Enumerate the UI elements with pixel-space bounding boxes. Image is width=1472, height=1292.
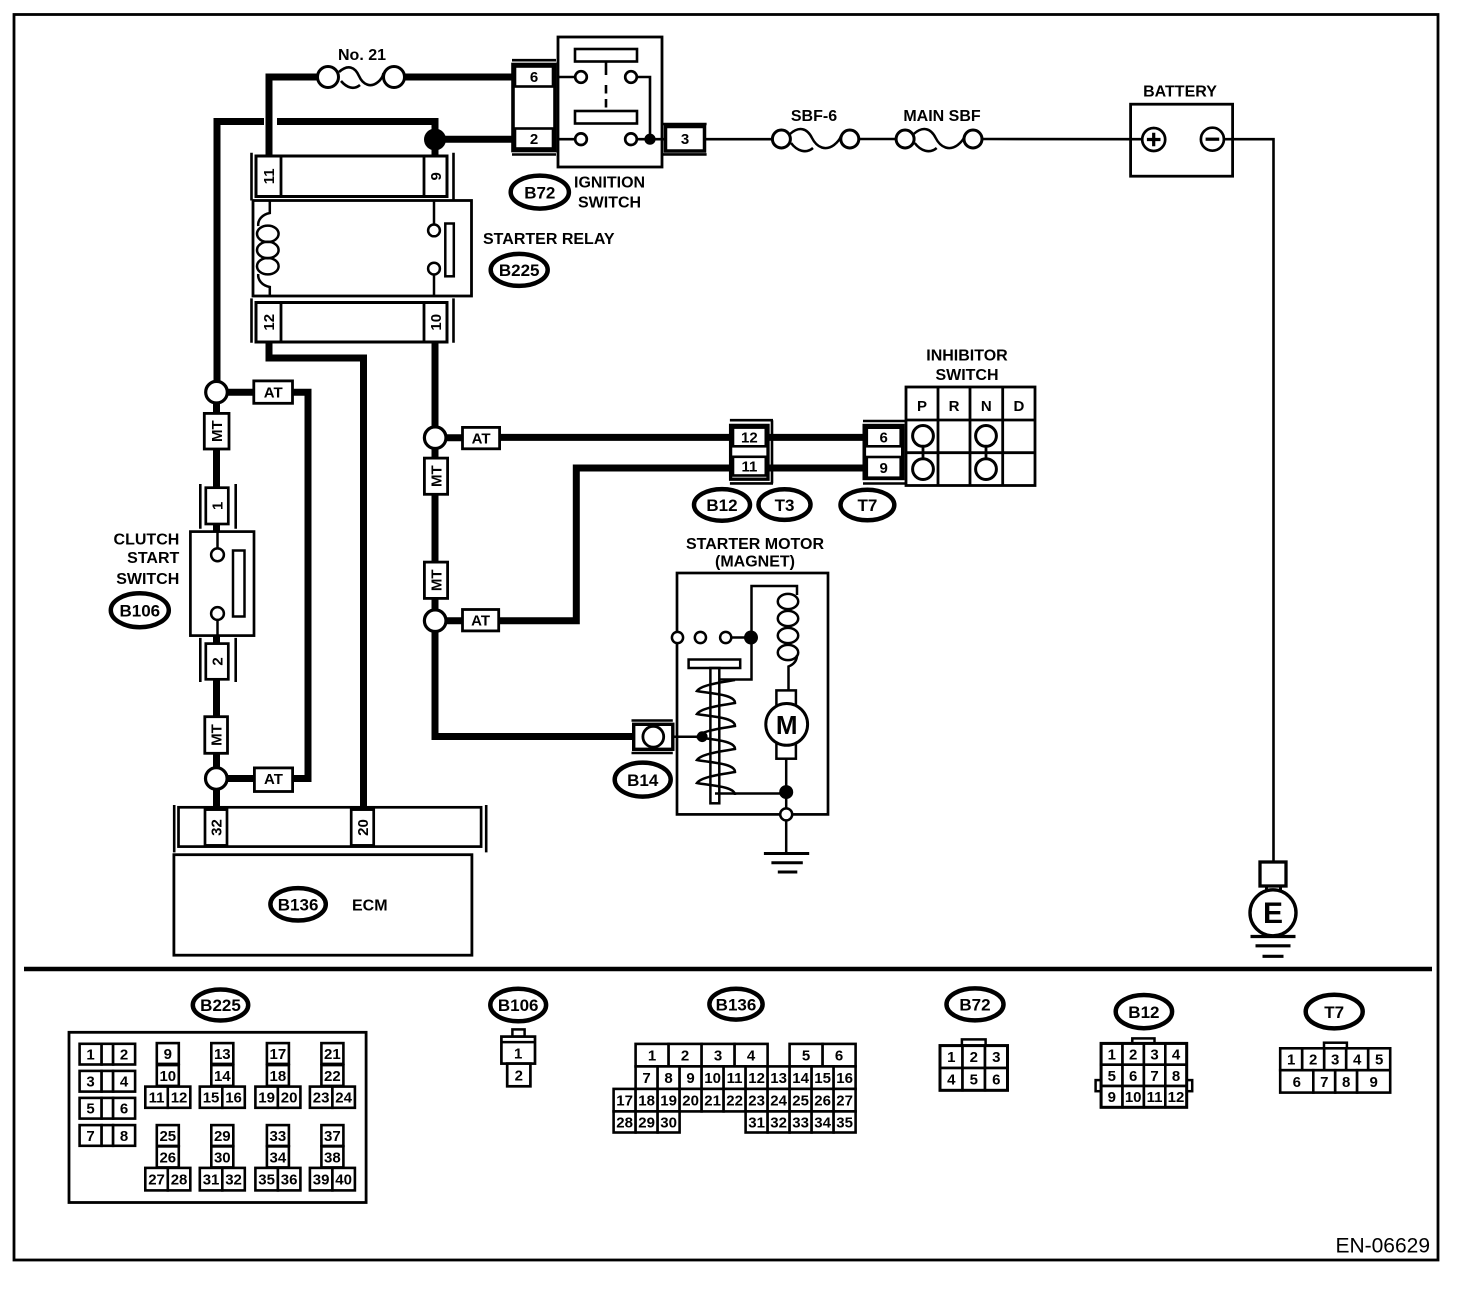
- svg-text:26: 26: [814, 1093, 831, 1110]
- ignition contact terminal circles: [558, 77, 575, 139]
- inhibitor contacts column P: [913, 426, 934, 480]
- svg-text:7: 7: [642, 1070, 650, 1087]
- svg-text:24: 24: [770, 1093, 787, 1110]
- starter relay bottom pin row: [256, 303, 447, 343]
- B-panel pin 2: [1302, 1048, 1324, 1070]
- B-panel pin 22: [321, 1065, 343, 1086]
- B-panel pin 1: [940, 1046, 963, 1068]
- svg-text:8: 8: [664, 1070, 672, 1087]
- junction dot on plunger: [697, 731, 708, 742]
- B-panel pin 31: [746, 1111, 768, 1132]
- wire solenoid plunger link: [720, 638, 752, 680]
- svg-text:24: 24: [335, 1090, 352, 1107]
- svg-text:32: 32: [770, 1114, 787, 1131]
- svg-text:16: 16: [836, 1070, 853, 1087]
- B-panel pin 6: [1123, 1065, 1144, 1086]
- wire SBF-6 to MAIN SBF: [859, 138, 896, 141]
- svg-text:ECM: ECM: [352, 898, 388, 915]
- svg-text:5: 5: [1375, 1052, 1383, 1069]
- svg-text:3: 3: [86, 1074, 94, 1091]
- B-panel pin 27: [145, 1168, 168, 1191]
- wire relay pin 12 to ECM pin 20: [269, 342, 364, 810]
- ECM connector bracket: [174, 805, 486, 852]
- svg-text:2: 2: [120, 1047, 128, 1064]
- ECM pin row: [179, 807, 482, 846]
- svg-text:2: 2: [1129, 1046, 1137, 1063]
- connector label B12: [694, 489, 750, 521]
- connector B12/T3 housing: [731, 425, 768, 479]
- svg-text:21: 21: [324, 1046, 341, 1063]
- svg-text:39: 39: [313, 1172, 330, 1189]
- B-panel pin 24: [332, 1087, 355, 1108]
- B-panel pin 5: [1368, 1048, 1390, 1070]
- clutch start switch body: [190, 532, 254, 636]
- B-panel pin 2: [113, 1044, 135, 1065]
- svg-text:B72: B72: [959, 996, 990, 1015]
- svg-text:5: 5: [1108, 1068, 1116, 1085]
- B-panel pin 1: [1101, 1043, 1122, 1064]
- svg-text:EN-06629: EN-06629: [1335, 1235, 1430, 1258]
- node junction circle (middle bottom): [424, 610, 446, 632]
- svg-text:26: 26: [159, 1149, 176, 1166]
- svg-text:4: 4: [1172, 1046, 1181, 1063]
- B-panel pin 21: [702, 1089, 724, 1112]
- svg-text:2: 2: [515, 1067, 523, 1084]
- svg-text:3: 3: [1150, 1046, 1158, 1063]
- svg-text:T3: T3: [775, 496, 795, 515]
- B-panel pin 26: [157, 1146, 179, 1167]
- junction dot node A: [424, 129, 446, 151]
- svg-text:11: 11: [261, 168, 278, 184]
- B-panel pin 25: [790, 1089, 812, 1112]
- B-panel pin 8: [1335, 1070, 1357, 1092]
- svg-text:2: 2: [530, 131, 538, 148]
- wire junction to AT flag (middle top): [446, 434, 463, 441]
- svg-text:27: 27: [836, 1093, 853, 1110]
- svg-text:33: 33: [792, 1114, 809, 1131]
- connector label B72: [511, 176, 569, 209]
- svg-text:11: 11: [1147, 1089, 1163, 1106]
- fuse No. 21: [318, 67, 405, 88]
- svg-text:AT: AT: [471, 613, 490, 630]
- B-panel pin 5: [1101, 1065, 1122, 1086]
- B-panel pin 37: [321, 1125, 343, 1146]
- svg-text:29: 29: [638, 1114, 655, 1131]
- ground symbol (starter motor): [764, 854, 809, 873]
- B-panel pin 4: [1165, 1043, 1186, 1064]
- motor M commutator block: [776, 690, 796, 758]
- svg-text:E: E: [1263, 897, 1283, 930]
- B-panel pin 19: [658, 1089, 680, 1112]
- svg-text:4: 4: [947, 1072, 956, 1089]
- clutch start switch label: [114, 532, 180, 589]
- svg-text:16: 16: [225, 1090, 242, 1107]
- B-panel pin 2: [669, 1044, 702, 1067]
- connector label B136 (panel): [709, 989, 762, 1020]
- plunger T bar: [689, 660, 741, 669]
- svg-text:3: 3: [714, 1048, 722, 1065]
- wire pin 12 to inhibitor pin 6: [768, 434, 865, 441]
- B-panel pin 12: [168, 1087, 191, 1108]
- wire AT flag to connector pin 12 (B12/T3): [499, 434, 730, 441]
- svg-text:M: M: [776, 710, 798, 740]
- wire junction to AT flag (left bottom): [227, 775, 255, 782]
- svg-text:1: 1: [1108, 1046, 1116, 1063]
- svg-text:9: 9: [880, 460, 888, 477]
- svg-text:14: 14: [792, 1070, 809, 1087]
- B-panel pin 35: [834, 1111, 856, 1132]
- svg-text:CLUTCH: CLUTCH: [114, 532, 180, 549]
- B-panel pin 26: [812, 1089, 834, 1112]
- svg-text:MT: MT: [428, 569, 445, 591]
- B-panel pin 29: [636, 1111, 658, 1132]
- svg-text:38: 38: [324, 1149, 341, 1166]
- wire pin 2 to MT flag: [213, 679, 220, 717]
- B-panel pin 40: [332, 1168, 355, 1191]
- B-panel pin 7: [1313, 1070, 1335, 1092]
- svg-text:INHIBITOR: INHIBITOR: [926, 348, 1008, 365]
- B-panel pin 13: [768, 1066, 790, 1089]
- B-panel pin 33: [790, 1111, 812, 1132]
- motor M: [766, 704, 808, 746]
- svg-text:2: 2: [970, 1049, 978, 1066]
- wire junction to AT flag: [227, 389, 254, 396]
- svg-text:35: 35: [258, 1172, 275, 1189]
- svg-text:3: 3: [1331, 1052, 1339, 1069]
- svg-text:33: 33: [270, 1128, 287, 1145]
- svg-text:28: 28: [171, 1172, 188, 1189]
- svg-text:17: 17: [616, 1093, 633, 1110]
- svg-text:18: 18: [270, 1068, 287, 1085]
- svg-text:6: 6: [530, 69, 538, 86]
- B-panel pin 2: [963, 1046, 986, 1068]
- B-panel pin 5: [80, 1098, 102, 1119]
- svg-text:8: 8: [1342, 1074, 1350, 1091]
- svg-text:12: 12: [741, 429, 758, 446]
- B-panel pin 17: [614, 1089, 636, 1112]
- connector B106 pin map: [512, 1029, 524, 1036]
- MT flag box (left bottom): [205, 717, 228, 754]
- svg-text:32: 32: [208, 819, 225, 836]
- svg-text:7: 7: [86, 1128, 94, 1145]
- connector B72 housing: [513, 65, 555, 151]
- wire junction down and right to starter motor connector B14: [435, 631, 633, 736]
- connector label T7: [841, 490, 895, 521]
- B-panel pin 36: [278, 1168, 301, 1191]
- svg-text:30: 30: [660, 1114, 677, 1131]
- svg-text:8: 8: [120, 1128, 128, 1145]
- B-panel pin 21: [321, 1043, 343, 1064]
- B-panel pin 33: [267, 1125, 289, 1146]
- B225 blank cell: [102, 1071, 114, 1092]
- svg-text:P: P: [917, 398, 927, 415]
- svg-text:6: 6: [1129, 1068, 1137, 1085]
- connector T7 pin map: [1324, 1043, 1347, 1049]
- B-panel pin 1: [636, 1044, 669, 1067]
- svg-text:N: N: [981, 398, 992, 415]
- B-panel pin 9: [1357, 1070, 1390, 1092]
- starter pull-in coil: [778, 594, 798, 660]
- svg-text:13: 13: [770, 1070, 787, 1087]
- B-panel pin 3: [985, 1046, 1008, 1068]
- svg-text:6: 6: [880, 429, 888, 446]
- B-panel pin 3: [80, 1071, 102, 1092]
- B-panel pin 15: [812, 1066, 834, 1089]
- svg-text:11: 11: [727, 1070, 743, 1087]
- B-panel pin 4: [940, 1068, 963, 1090]
- svg-text:25: 25: [159, 1128, 176, 1145]
- svg-text:MT: MT: [428, 465, 445, 487]
- node junction circle (left, AT/MT split): [206, 381, 228, 403]
- starter relay body: [253, 201, 472, 297]
- B-panel pin 4: [735, 1044, 768, 1067]
- B-panel pin 7: [1144, 1065, 1165, 1086]
- svg-text:B225: B225: [499, 261, 540, 280]
- junction dot at ignition pin 3: [644, 134, 655, 145]
- svg-text:40: 40: [335, 1172, 352, 1189]
- B-panel pin 10: [157, 1065, 179, 1086]
- connector B12/T3 bracket: [730, 420, 773, 483]
- connector B225 pin map: [69, 1032, 366, 1202]
- svg-text:1: 1: [947, 1049, 955, 1066]
- connector B14: [634, 724, 673, 749]
- connector label T3: [759, 489, 811, 520]
- wire junction dot to ignition pin 2: [435, 136, 513, 143]
- ignition switch label: [574, 175, 645, 212]
- connector T7 housing (pins 6/9): [864, 426, 903, 479]
- plunger return spring: [697, 680, 735, 795]
- connector B106 pin 2 bracket: [200, 638, 235, 682]
- B-panel pin 7: [636, 1066, 658, 1089]
- wire AT flag up to connector pin 11 (B12/T3): [499, 468, 731, 621]
- B-panel pin 12: [1165, 1086, 1186, 1107]
- B-panel pin 4: [113, 1071, 135, 1092]
- AT flag box (left top): [254, 381, 293, 403]
- ignition switch bottom contact bar: [575, 111, 637, 124]
- ignition switch top contact bar: [575, 49, 637, 62]
- B-panel pin 18: [636, 1089, 658, 1112]
- B-panel pin 1: [80, 1044, 102, 1065]
- B-panel pin 38: [321, 1146, 343, 1167]
- svg-text:BATTERY: BATTERY: [1143, 84, 1217, 101]
- B-panel pin 13: [211, 1043, 233, 1064]
- svg-text:STARTER RELAY: STARTER RELAY: [483, 231, 615, 248]
- wire contact dot to pull-in coil: [752, 586, 798, 638]
- inhibitor switch grid: [906, 387, 1035, 486]
- B225 blank cell: [102, 1044, 114, 1065]
- svg-text:1: 1: [514, 1045, 522, 1062]
- B-panel pin 28: [168, 1168, 191, 1191]
- svg-text:25: 25: [792, 1093, 809, 1110]
- pin 2 (clutch start switch): [206, 644, 229, 680]
- starter motor body: [677, 573, 828, 814]
- svg-text:12: 12: [1168, 1089, 1185, 1106]
- svg-text:4: 4: [1353, 1052, 1362, 1069]
- B-panel pin 6: [823, 1044, 856, 1067]
- svg-text:AT: AT: [264, 385, 283, 402]
- B-panel pin 31: [200, 1168, 223, 1191]
- svg-text:10: 10: [1125, 1089, 1142, 1106]
- section divider line: [24, 967, 1432, 972]
- svg-text:SBF-6: SBF-6: [791, 108, 837, 125]
- B-panel pin 34: [812, 1111, 834, 1132]
- AT flag box (left bottom): [254, 768, 292, 792]
- B-panel pin 19: [255, 1087, 278, 1108]
- node junction circle (left bottom): [206, 768, 228, 790]
- svg-text:7: 7: [1320, 1074, 1328, 1091]
- svg-text:B136: B136: [278, 896, 319, 915]
- starter relay top pin row: [256, 156, 447, 197]
- B-panel pin 23: [746, 1089, 768, 1112]
- svg-text:9: 9: [164, 1046, 172, 1063]
- ignition switch body: [558, 37, 662, 167]
- svg-text:AT: AT: [264, 771, 283, 788]
- wire pin 11 to inhibitor pin 9: [768, 465, 865, 472]
- ECM body: [174, 855, 472, 956]
- connector B106 pin 1 bracket: [200, 484, 235, 529]
- svg-text:14: 14: [214, 1068, 231, 1085]
- svg-text:19: 19: [660, 1093, 677, 1110]
- B-panel pin 18: [267, 1065, 289, 1086]
- svg-text:8: 8: [1172, 1068, 1180, 1085]
- pin 11 (B12/T3): [733, 457, 766, 476]
- B-panel pin 1: [1280, 1048, 1302, 1070]
- junction dot (solenoid contact): [744, 631, 758, 645]
- wire between MT flags (middle): [432, 494, 439, 563]
- solenoid contact circles: [672, 632, 745, 643]
- svg-text:28: 28: [616, 1114, 633, 1131]
- svg-text:22: 22: [324, 1068, 341, 1085]
- B-panel pin 20: [278, 1087, 301, 1108]
- B-panel pin 11: [1144, 1086, 1165, 1107]
- svg-text:IGNITION: IGNITION: [574, 175, 645, 192]
- svg-text:B14: B14: [627, 771, 659, 790]
- svg-text:START: START: [127, 550, 179, 567]
- wire plunger to motor negative: [715, 792, 786, 795]
- B-panel pin 8: [1165, 1065, 1186, 1086]
- svg-text:31: 31: [748, 1114, 765, 1131]
- svg-text:B12: B12: [706, 496, 737, 515]
- wire: left branch down to clutch chain (crosses fuse wire with gap): [217, 122, 264, 394]
- svg-text:MT: MT: [209, 420, 226, 442]
- connector B72 bracket (ignition switch): [512, 60, 556, 154]
- svg-text:2: 2: [209, 657, 226, 665]
- svg-text:34: 34: [814, 1114, 831, 1131]
- svg-text:1: 1: [209, 502, 226, 510]
- ignition switch key shaft (dashed): [605, 62, 608, 76]
- svg-text:T7: T7: [857, 496, 877, 515]
- B-panel pin 11: [724, 1066, 746, 1089]
- svg-text:MT: MT: [209, 724, 226, 746]
- junction dot (motor negative): [779, 785, 793, 799]
- fuse SBF-6: [772, 129, 858, 151]
- connector label B72 (panel): [947, 988, 1004, 1020]
- AT flag box (middle bottom): [463, 610, 499, 631]
- case terminal circle: [780, 808, 792, 820]
- wire inside ignition switch to pin 3: [637, 77, 666, 139]
- svg-text:9: 9: [428, 172, 445, 180]
- connector label B14: [615, 763, 671, 797]
- svg-text:27: 27: [148, 1172, 165, 1189]
- svg-text:13: 13: [214, 1046, 231, 1063]
- B-panel pin 34: [267, 1146, 289, 1167]
- svg-text:(MAGNET): (MAGNET): [715, 554, 795, 571]
- connector label T7 (panel): [1306, 995, 1363, 1029]
- ground symbol (battery earth): [1251, 937, 1296, 957]
- connector label B12 (panel): [1116, 995, 1172, 1028]
- svg-text:1: 1: [1287, 1052, 1295, 1069]
- connector label B136: [270, 888, 325, 920]
- starter relay connector bracket top: [252, 153, 454, 201]
- connector B12 pin map: [1132, 1038, 1154, 1043]
- B-panel pin 7: [80, 1125, 102, 1146]
- svg-text:23: 23: [313, 1090, 330, 1107]
- wire junction to AT flag (middle bottom): [446, 617, 463, 624]
- svg-text:9: 9: [1108, 1089, 1116, 1106]
- svg-text:D: D: [1013, 398, 1024, 415]
- svg-text:2: 2: [681, 1048, 689, 1065]
- B-panel pin 6: [985, 1068, 1008, 1090]
- wire clutch switch to connector pin 2: [213, 635, 220, 645]
- wire battery negative to ground E: [1224, 139, 1274, 861]
- svg-text:35: 35: [836, 1114, 853, 1131]
- wire MT to lower junction: [213, 753, 220, 768]
- AT flag box (middle top): [463, 427, 500, 448]
- pin 6 (ignition): [515, 67, 553, 87]
- wire relay pin 10 down to AT/MT junction: [432, 342, 439, 427]
- svg-text:5: 5: [86, 1101, 94, 1118]
- svg-text:5: 5: [802, 1048, 810, 1065]
- B-panel pin 5: [963, 1068, 986, 1090]
- svg-text:10: 10: [428, 314, 445, 331]
- wire MT to junction (middle bottom): [432, 598, 439, 610]
- connector B72 pin map: [962, 1039, 986, 1045]
- wire junction to MT box: [213, 403, 220, 414]
- B-panel pin 8: [658, 1066, 680, 1089]
- MT flag box (middle top): [424, 458, 447, 494]
- wire B14 to solenoid plunger: [673, 735, 700, 738]
- svg-text:1: 1: [86, 1047, 94, 1064]
- svg-text:32: 32: [225, 1172, 242, 1189]
- B-panel pin 4: [1346, 1048, 1368, 1070]
- B-panel pin 8: [113, 1125, 135, 1146]
- B-panel pin 11: [145, 1087, 168, 1108]
- svg-text:5: 5: [970, 1072, 978, 1089]
- B-panel pin 35: [255, 1168, 278, 1191]
- MT flag box (left top): [204, 413, 229, 449]
- svg-text:30: 30: [214, 1149, 231, 1166]
- svg-text:7: 7: [1150, 1068, 1158, 1085]
- svg-text:31: 31: [203, 1172, 220, 1189]
- B-panel pin 25: [157, 1125, 179, 1146]
- svg-text:15: 15: [814, 1070, 831, 1087]
- B-panel pin 14: [211, 1065, 233, 1086]
- connector B14 bracket: [632, 721, 673, 754]
- connector label B106: [111, 593, 169, 627]
- svg-text:SWITCH: SWITCH: [935, 367, 998, 384]
- pin 6 (inhibitor): [867, 428, 901, 447]
- svg-text:11: 11: [149, 1090, 165, 1107]
- svg-text:23: 23: [748, 1093, 765, 1110]
- svg-text:6: 6: [120, 1101, 128, 1118]
- B225 blank cell: [102, 1125, 114, 1146]
- B-panel pin 6: [113, 1098, 135, 1119]
- wire from relay pin 11 up to fuse No. 21: [269, 77, 317, 157]
- node junction circle (middle top): [424, 427, 446, 449]
- svg-text:36: 36: [281, 1172, 298, 1189]
- svg-text:AT: AT: [472, 431, 491, 448]
- svg-text:3: 3: [992, 1049, 1000, 1066]
